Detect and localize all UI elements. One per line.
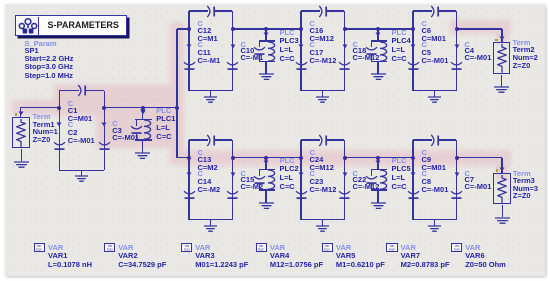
wire: left rail of section C24: [300, 140, 301, 220]
ground of PLC4: [377, 61, 378, 74]
labels for Term3: [513, 170, 531, 178]
variable block VAR3: M01=1.2243 pF: [181, 243, 192, 252]
node: PLC4 junction: [376, 27, 380, 31]
node: PLC5 junction: [376, 156, 380, 160]
labels for C9 and C8: [422, 149, 427, 157]
labels for C10: [241, 41, 246, 49]
wire: bottom rail of section C9: [413, 219, 457, 220]
node: splitter junction: [175, 106, 179, 110]
wire: top row section C16 to section C6: [345, 28, 414, 29]
capacitor C12 (series, C=M1): [189, 10, 208, 11]
node: input junction of section C24: [299, 156, 303, 160]
labels for PLC3: [280, 29, 295, 37]
node: input junction of section C6: [411, 27, 415, 31]
node: PLC3 junction: [264, 27, 268, 31]
node: output junction of section C24: [343, 156, 347, 160]
wire: bottom row output to Term3: [457, 157, 503, 158]
labels for C3: [112, 120, 117, 128]
wire: bottom rail of section C6: [413, 90, 457, 91]
ground of section C6: [434, 91, 435, 97]
labels for C1 and C2: [68, 100, 73, 108]
capacitor C14 (shunt, C=-M2): [186, 172, 192, 177]
node: input junction of section C9: [411, 156, 415, 160]
simulation controller labels SP1: [25, 40, 57, 48]
wire: top row section C12 to section C16: [233, 28, 302, 29]
wire: right rail of section C24: [344, 140, 345, 220]
pin marker of Term3: [496, 169, 498, 171]
wire: bottom rail of section C13: [189, 219, 233, 220]
wire: Term1 to section C1: [20, 107, 59, 108]
node: output junction of section C13: [231, 156, 235, 160]
capacitor C17 (shunt, C=-M12): [298, 44, 304, 49]
capacitor C16 (series, C=M12): [301, 10, 320, 11]
capacitor C18 (shunt, C=-M12): [342, 44, 348, 49]
wire: right rail of section C1: [104, 91, 105, 171]
ground of Term3: [502, 205, 503, 217]
ground of Term1: [21, 149, 22, 161]
capacitor C7 (shunt, C=-M01): [454, 172, 460, 177]
node: output junction of section C1: [102, 106, 106, 110]
pin marker of Term2: [495, 39, 497, 41]
ground of PLC5: [377, 190, 378, 203]
port Term2 (Num=2, Z=Z0): [493, 42, 510, 74]
ground of section C1: [81, 170, 82, 176]
ground of Term2: [501, 75, 502, 87]
labels for Term1: [33, 113, 51, 121]
ground of PLC1: [142, 140, 143, 153]
ground of section C24: [322, 220, 323, 226]
ground of section C12: [210, 91, 211, 97]
parallel LC resonator PLC4 (L=L, C=C): [377, 29, 378, 41]
wire: right rail of section C12: [232, 11, 233, 91]
wire: splitter to bottom row input: [177, 157, 189, 158]
svg-text:Eqn: Eqn: [324, 247, 330, 250]
port Term1 (Num=1, Z=Z0): [12, 117, 29, 149]
labels for C22: [353, 170, 358, 178]
labels for C7: [465, 170, 470, 178]
labels for PLC1: [156, 107, 171, 115]
ground of section C16: [322, 91, 323, 97]
wire: bottom rail of section C12: [189, 90, 233, 91]
svg-text:Eqn: Eqn: [184, 247, 190, 250]
svg-text:Eqn: Eqn: [454, 247, 460, 250]
wire: bottom rail of section C1: [59, 170, 104, 171]
wire: Term1 pin riser: [20, 108, 21, 117]
simulation controller block: S-PARAMETERS: [15, 15, 127, 36]
variable block VAR7: M2=0.8783 pF: [386, 243, 397, 252]
port Term3 (Num=3, Z=Z0): [493, 173, 510, 205]
wire: right rail of section C16: [344, 11, 345, 91]
node: output junction of section C6: [455, 27, 459, 31]
capacitor C10 (shunt, C=-M1): [230, 44, 236, 49]
labels for PLC5: [392, 157, 407, 165]
node: input junction of section C16: [299, 27, 303, 31]
wire: left rail of section C6: [412, 11, 413, 91]
labels for C4: [465, 41, 470, 49]
parallel LC resonator PLC3 (L=L, C=C): [265, 29, 266, 41]
variable block VAR5: M1=0.6210 pF: [322, 243, 333, 252]
node: input junction of section C13: [187, 156, 191, 160]
capacitor C13 (series, C=M2): [189, 139, 208, 140]
wire: left rail of section C12: [188, 11, 189, 91]
variable block VAR2: C=34.7529 pF: [104, 243, 115, 252]
wire: bottom rail of section C16: [301, 90, 345, 91]
svg-text:Eqn: Eqn: [107, 247, 113, 250]
parallel LC resonator PLC1 (L=L, C=C): [142, 108, 143, 120]
parallel LC resonator PLC2 (L=L, C=C): [265, 158, 266, 170]
ground of section C9: [434, 220, 435, 226]
labels for C24 and C23: [310, 149, 315, 157]
ground of PLC3: [265, 61, 266, 74]
capacitor C11 (shunt, C=-M1): [186, 44, 192, 49]
S-PARAMETERS icon: [17, 17, 39, 36]
capacitor C15 (shunt, C=-M2): [230, 172, 236, 177]
node: PLC2 junction: [264, 156, 268, 160]
variable block VAR4: M12=1.0756 pF: [256, 243, 267, 252]
capacitor C9 (series, C=M01): [413, 139, 432, 140]
labels for C16 and C17: [310, 20, 315, 28]
variable block VAR6: Z0=50 Ohm: [451, 243, 462, 252]
parallel LC resonator PLC5 (L=L, C=C): [377, 158, 378, 170]
wire: bottom rail of section C24: [301, 219, 345, 220]
labels for C13 and C14: [198, 149, 203, 157]
node: PLC1 junction: [141, 106, 145, 110]
capacitor C6 (series, C=M01): [413, 10, 432, 11]
wire: left rail of section C16: [300, 11, 301, 91]
wire: left rail of section C1: [59, 91, 60, 171]
capacitor C2 (shunt, C=-M01): [56, 122, 62, 127]
svg-text:Eqn: Eqn: [389, 247, 395, 250]
ground of PLC2: [265, 190, 266, 203]
S-PARAMETERS title: [48, 21, 119, 30]
wire: splitter to top row input: [177, 28, 189, 29]
capacitor C24 (series, C=M12): [301, 139, 320, 140]
capacitor C4 (shunt, C=-M01): [454, 44, 460, 49]
wire: bottom row section C24 to section C9: [345, 157, 414, 158]
labels for C6 and C5: [422, 20, 427, 28]
wire: bottom row section C13 to section C24: [233, 157, 302, 158]
wire: left rail of section C9: [412, 140, 413, 220]
labels for PLC4: [392, 29, 407, 37]
capacitor C23 (shunt, C=-M12): [298, 172, 304, 177]
node: output junction of section C16: [343, 27, 347, 31]
ground of section C13: [210, 220, 211, 226]
wire: section C1 output to splitter node: [104, 107, 177, 108]
labels for C15: [241, 170, 246, 178]
wire: right rail of section C6: [456, 11, 457, 91]
node: output junction of section C12: [231, 27, 235, 31]
labels for C18: [353, 41, 358, 49]
wire: vertical distribution net: [176, 29, 177, 158]
capacitor C22 (shunt, C=-M12): [342, 172, 348, 177]
wire: top row output to Term2: [457, 28, 503, 29]
wire: right rail of section C13: [232, 140, 233, 220]
node: output junction of section C9: [455, 156, 459, 160]
node: input junction of section C12: [187, 27, 191, 31]
labels for PLC2: [280, 157, 295, 165]
capacitor C8 (shunt, C=-M01): [410, 172, 416, 177]
wire: right rail of section C9: [456, 140, 457, 220]
svg-text:Eqn: Eqn: [258, 247, 264, 250]
capacitor C1 (series, C=M01): [59, 90, 79, 91]
labels for Term2: [513, 39, 531, 47]
node: input junction of section C1: [57, 106, 61, 110]
capacitor C5 (shunt, C=-M01): [410, 44, 416, 49]
wire: left rail of section C13: [188, 140, 189, 220]
variable block VAR1: L=0.1078 nH: [34, 243, 45, 252]
capacitor C3 (shunt, C=-M01): [101, 122, 107, 127]
svg-text:Eqn: Eqn: [36, 247, 42, 250]
pin marker of Term1: [15, 113, 17, 115]
labels for C12 and C11: [198, 20, 203, 28]
